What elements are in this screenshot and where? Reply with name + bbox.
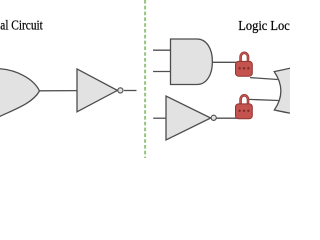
wire inverter U2 input: [153, 117, 166, 119]
key lock K2 shackle casing: [241, 95, 248, 104]
and-gate G2: [171, 39, 213, 85]
or-gate G3 (right, clipped at image edge): [274, 68, 292, 114]
key lock K2 shackle: [241, 95, 248, 104]
inverter U1 bubble: [118, 88, 123, 93]
wire and-gate input A: [153, 49, 171, 51]
inverter U2 triangle: [166, 96, 211, 140]
wire G1 output to inverter U1: [40, 90, 78, 92]
key lock K2 dots: [238, 110, 249, 112]
wire G2 output to key lock K1: [212, 61, 248, 63]
inverter U2 bubble: [211, 115, 216, 120]
inverter U1 triangle: [77, 69, 117, 112]
key lock K1 body: [236, 61, 253, 76]
wire K1 to or-gate G3 top input: [250, 78, 278, 80]
wire K2 to or-gate G3 bottom input: [249, 99, 279, 100]
wire U2 output to key lock K2: [217, 117, 249, 119]
key lock K2 body: [236, 104, 253, 119]
wire U1 output stub: [124, 90, 137, 92]
svg-text:al Circuit: al Circuit: [0, 18, 43, 33]
or-gate G1 (left, clipped at image edge): [0, 69, 40, 119]
separator dashed line: [144, 0, 146, 158]
svg-text:Logic Locked Circuit: Logic Locked Circuit: [238, 19, 290, 34]
key lock K1 dots: [238, 67, 249, 69]
wire and-gate input B: [153, 71, 171, 73]
key lock K1 shackle casing: [241, 53, 248, 62]
key lock K1 shackle: [241, 53, 248, 62]
